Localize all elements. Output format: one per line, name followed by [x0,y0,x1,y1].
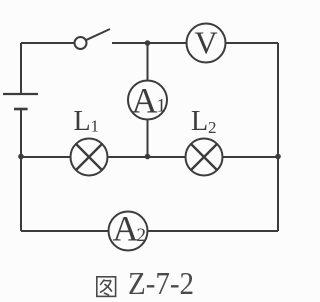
svg-text:1: 1 [91,117,100,136]
svg-text:A: A [132,81,158,121]
svg-text:A: A [113,209,139,249]
svg-text:L: L [191,106,208,137]
svg-text:L: L [73,106,90,137]
svg-text:1: 1 [157,96,167,117]
svg-text:2: 2 [137,225,147,246]
svg-text:2: 2 [208,118,217,137]
svg-text:V: V [194,25,217,61]
svg-text:Z-7-2: Z-7-2 [128,266,194,301]
